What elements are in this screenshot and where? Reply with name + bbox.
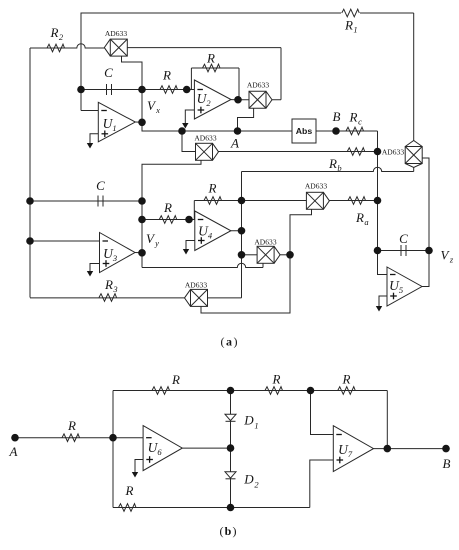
- svg-text:1: 1: [112, 123, 116, 133]
- svg-text:AD633: AD633: [305, 182, 328, 191]
- svg-text:1: 1: [353, 25, 357, 35]
- svg-text:AD633: AD633: [247, 81, 270, 90]
- svg-text:): ): [233, 524, 237, 538]
- svg-text:R: R: [50, 25, 59, 40]
- svg-text:AD633: AD633: [254, 238, 277, 247]
- svg-text:R: R: [163, 200, 172, 215]
- svg-text:C: C: [399, 231, 408, 246]
- svg-text:R: R: [355, 210, 364, 225]
- svg-text:R: R: [208, 181, 217, 196]
- svg-text:3: 3: [112, 253, 117, 263]
- svg-text:R: R: [272, 372, 281, 387]
- svg-text:R: R: [162, 68, 171, 83]
- svg-text:R: R: [349, 110, 358, 125]
- svg-text:Abs: Abs: [296, 126, 313, 136]
- svg-text:b: b: [225, 524, 232, 538]
- svg-text:3: 3: [112, 284, 117, 294]
- svg-text:AD633: AD633: [185, 281, 208, 290]
- svg-text:R: R: [67, 418, 76, 433]
- svg-text:R: R: [104, 277, 113, 292]
- svg-text:1: 1: [254, 421, 258, 431]
- svg-text:AD633: AD633: [382, 148, 405, 157]
- svg-text:B: B: [443, 456, 451, 471]
- svg-text:a: a: [364, 217, 368, 227]
- svg-text:A: A: [9, 444, 18, 459]
- svg-text:a: a: [226, 335, 232, 349]
- svg-text:AD633: AD633: [194, 134, 217, 143]
- svg-text:(: (: [220, 524, 224, 538]
- svg-text:b: b: [337, 163, 341, 173]
- svg-text:A: A: [230, 136, 239, 151]
- svg-text:c: c: [358, 117, 362, 127]
- svg-text:5: 5: [399, 285, 403, 295]
- svg-text:z: z: [449, 255, 454, 265]
- svg-text:R: R: [171, 372, 180, 387]
- svg-text:x: x: [155, 105, 160, 115]
- svg-text:): ): [234, 335, 238, 349]
- svg-text:AD633: AD633: [105, 29, 128, 38]
- svg-text:R: R: [328, 156, 337, 171]
- svg-text:(: (: [221, 335, 225, 349]
- svg-text:R: R: [344, 18, 353, 33]
- svg-text:R: R: [206, 51, 215, 66]
- svg-text:C: C: [104, 65, 113, 80]
- svg-text:D: D: [243, 413, 254, 428]
- svg-text:B: B: [333, 109, 341, 124]
- svg-text:D: D: [243, 472, 254, 487]
- svg-text:R: R: [342, 372, 351, 387]
- svg-text:y: y: [154, 238, 159, 248]
- svg-text:C: C: [96, 178, 105, 193]
- svg-text:R: R: [125, 483, 134, 498]
